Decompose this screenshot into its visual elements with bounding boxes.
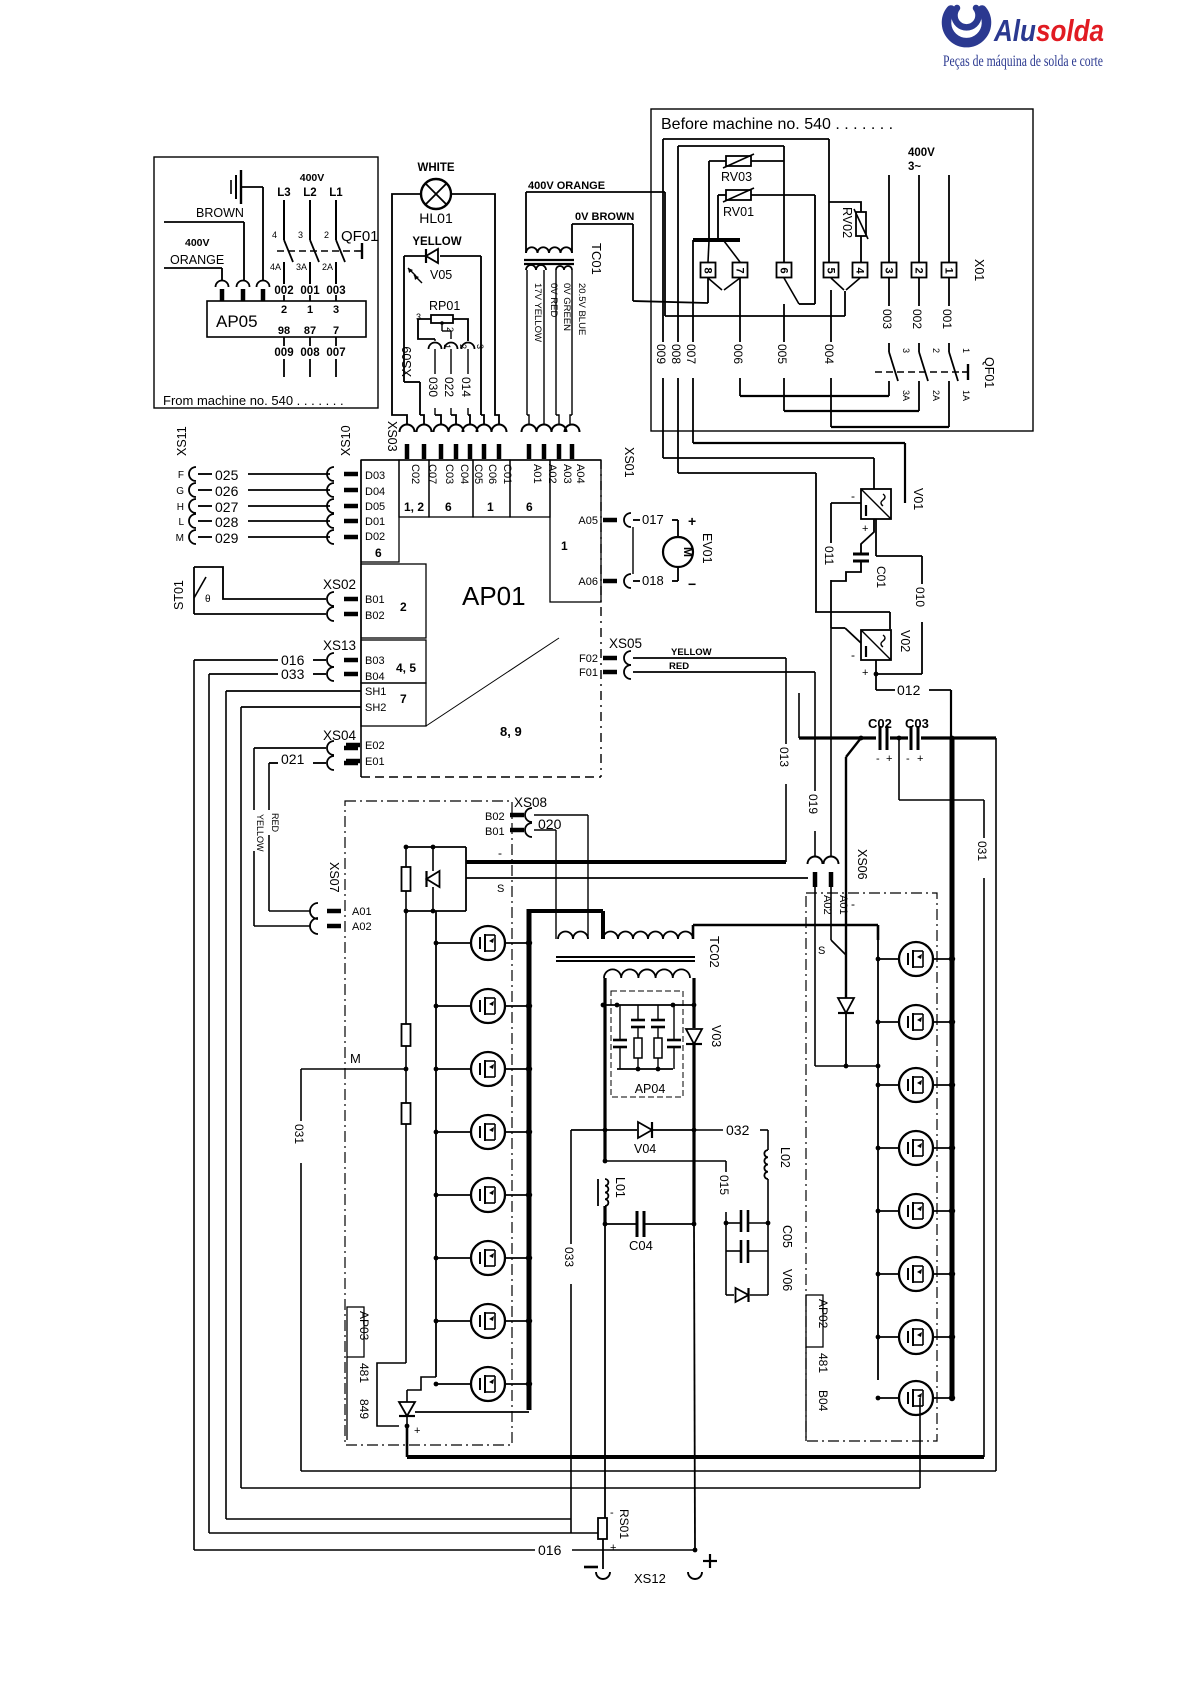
- varistor RV03: [726, 156, 751, 166]
- frame Before machine no. 540: [651, 109, 1033, 431]
- svg-text:AP01: AP01: [462, 581, 526, 611]
- AP01 pin box 1,2: [399, 460, 429, 517]
- svg-text:033: 033: [562, 1247, 576, 1267]
- svg-text:6: 6: [445, 500, 452, 514]
- AP04 capacitor branch 4: [673, 1005, 675, 1040]
- svg-text:XS07: XS07: [327, 862, 341, 893]
- transistor V row 3 left chain: [436, 1068, 471, 1070]
- svg-text:TC02: TC02: [707, 936, 722, 968]
- frame From machine no. 540: [154, 157, 378, 408]
- svg-text:011: 011: [822, 546, 836, 565]
- svg-text:400V: 400V: [300, 172, 325, 184]
- wire 013: [785, 658, 787, 744]
- svg-text:015: 015: [717, 1175, 731, 1195]
- wire 012: [875, 660, 877, 690]
- wire XS06 A01 down: [830, 887, 832, 940]
- svg-text:+: +: [862, 523, 868, 535]
- terminal strip X01: [701, 263, 716, 278]
- svg-text:Alusolda: Alusolda: [993, 13, 1104, 48]
- svg-text:RV03: RV03: [721, 170, 752, 184]
- svg-text:YELLOW: YELLOW: [412, 236, 461, 248]
- svg-text:M: M: [176, 533, 184, 544]
- terminal 6 dogleg: [784, 278, 799, 304]
- right MOSFET chain gate bus: [877, 940, 879, 1380]
- svg-text:BROWN: BROWN: [196, 206, 244, 220]
- svg-text:QF01: QF01: [982, 357, 996, 388]
- wire 031 bottom: [301, 1470, 996, 1472]
- svg-text:-: -: [851, 489, 855, 503]
- svg-text:031: 031: [292, 1124, 306, 1144]
- transistor V row 1 left chain: [436, 942, 471, 944]
- svg-text:0V RED: 0V RED: [548, 283, 559, 317]
- svg-text:481: 481: [357, 1363, 371, 1383]
- svg-text:2: 2: [445, 327, 455, 332]
- wire 007 top: [692, 240, 694, 342]
- svg-text:009: 009: [654, 344, 668, 364]
- wire B02 to TC02 aux: [534, 814, 588, 816]
- svg-text:E02: E02: [365, 740, 385, 752]
- module AP03 dashed box: [345, 801, 512, 1445]
- svg-text:2A: 2A: [322, 262, 333, 272]
- svg-text:1: 1: [487, 500, 494, 514]
- svg-text:Before machine no. 540 . .: Before machine no. 540 . . . . . . .: [661, 116, 893, 133]
- svg-text:B02: B02: [365, 610, 385, 622]
- wire 033 upper: [209, 673, 278, 675]
- svg-text:2: 2: [324, 230, 329, 240]
- svg-text:B02: B02: [485, 811, 505, 823]
- AP05 box: [207, 301, 366, 337]
- wire 033 bottom: [209, 1532, 598, 1534]
- wire yellow to A02: [254, 925, 310, 927]
- snubber resistor block: [406, 846, 466, 848]
- svg-text:400V: 400V: [908, 147, 935, 159]
- TC02 secondary left down: [603, 978, 606, 1161]
- led V05 arrows: [408, 268, 416, 276]
- svg-text:RV02: RV02: [840, 207, 854, 238]
- wire 032: [694, 1129, 723, 1131]
- svg-text:XS12: XS12: [634, 1571, 666, 1586]
- svg-text:XS10: XS10: [339, 425, 353, 456]
- wire 008 top: [678, 145, 784, 147]
- svg-text:1: 1: [561, 539, 568, 553]
- svg-text:B01: B01: [485, 826, 505, 838]
- AP05 input connector bumps: [216, 281, 229, 288]
- svg-text:018: 018: [642, 573, 664, 588]
- svg-text:+: +: [917, 753, 923, 765]
- AP04 top rail: [603, 1004, 694, 1006]
- svg-text:012: 012: [897, 682, 921, 698]
- wire minus output down: [604, 1224, 606, 1518]
- wire 0V brown into box: [633, 301, 708, 303]
- svg-text:SH1: SH1: [365, 686, 386, 698]
- transistor V row 1 right chain: [878, 958, 899, 960]
- svg-text:S: S: [497, 883, 504, 895]
- svg-text:001: 001: [940, 309, 954, 329]
- RP01 right leg: [453, 319, 468, 341]
- svg-text:V04: V04: [634, 1142, 656, 1156]
- svg-text:RED: RED: [669, 661, 689, 672]
- svg-text:A06: A06: [578, 576, 598, 588]
- AP01 pin box 4,5: [361, 640, 426, 683]
- wire A06 018: [624, 574, 631, 588]
- inductor L01: [597, 1179, 599, 1206]
- Alusolda logo icon: [947, 8, 987, 43]
- svg-text:014: 014: [459, 377, 473, 397]
- svg-text:029: 029: [215, 530, 239, 546]
- wire 005: [783, 304, 785, 342]
- resistor in snubber: [402, 867, 411, 891]
- diode V03: [686, 1029, 702, 1044]
- QF01 dashed tie bar: [277, 250, 356, 252]
- svg-text:022: 022: [442, 377, 456, 397]
- wire 400V orange: [526, 191, 665, 193]
- svg-text:V05: V05: [430, 268, 452, 282]
- svg-text:009: 009: [274, 347, 293, 359]
- svg-text:021: 021: [281, 751, 305, 767]
- svg-text:XS09: XS09: [400, 346, 414, 377]
- wire 002: [918, 278, 920, 306]
- TC02 primary right to right chain: [692, 925, 695, 939]
- svg-text:D05: D05: [365, 501, 385, 513]
- svg-text:RP01: RP01: [429, 299, 460, 313]
- breaker QF01 main: [875, 371, 962, 373]
- svg-text:L02: L02: [778, 1147, 792, 1168]
- transistor V row 5 left chain: [436, 1194, 471, 1196]
- svg-text:3: 3: [333, 304, 339, 316]
- motor EV01: [663, 537, 693, 567]
- svg-text:AP02: AP02: [816, 1299, 830, 1329]
- left MOSFET drain bus thick: [527, 909, 532, 1410]
- capacitor C01: [853, 553, 869, 556]
- svg-text:YELLOW: YELLOW: [671, 647, 712, 658]
- svg-text:B04: B04: [816, 1390, 830, 1412]
- svg-text:8: 8: [702, 267, 714, 273]
- svg-text:E01: E01: [365, 756, 385, 768]
- svg-text:XS06: XS06: [855, 849, 869, 880]
- svg-text:SH2: SH2: [365, 702, 386, 714]
- svg-text:8, 9: 8, 9: [500, 724, 522, 739]
- svg-text:849: 849: [357, 1399, 371, 1419]
- AP01 pin box 6a: [429, 460, 473, 517]
- svg-text:AP04: AP04: [635, 1082, 666, 1096]
- shunt RS01: [598, 1518, 607, 1539]
- svg-text:3: 3: [298, 230, 303, 240]
- svg-text:A04: A04: [574, 464, 586, 484]
- svg-text:RS01: RS01: [617, 1509, 631, 1539]
- diode in AP02 gate feed: [838, 998, 854, 1013]
- transistor V row 8 left chain: [436, 1383, 471, 1385]
- wire 016 upper: [194, 659, 278, 661]
- svg-text:016: 016: [538, 1542, 562, 1558]
- AP01 diagonal: [426, 638, 559, 726]
- lamp HL01: [421, 179, 451, 209]
- wire 008 rail to V02: [678, 472, 816, 474]
- right MOSFET drain bus thick: [950, 738, 955, 1398]
- svg-text:B03: B03: [365, 655, 385, 667]
- svg-text:-: -: [876, 753, 880, 765]
- svg-text:003: 003: [880, 309, 894, 329]
- AP04 RC branch 3: [657, 1005, 659, 1020]
- svg-text:AP05: AP05: [216, 312, 258, 331]
- three phase feed wires: [888, 175, 890, 262]
- svg-text:2: 2: [931, 348, 941, 353]
- diode V07: [377, 1363, 406, 1426]
- wire 400V orange into box: [665, 315, 845, 317]
- svg-text:XS04: XS04: [323, 728, 357, 743]
- svg-text:032: 032: [726, 1122, 750, 1138]
- svg-text:481: 481: [816, 1353, 830, 1373]
- svg-text:0V BROWN: 0V BROWN: [575, 211, 634, 223]
- wire ST01 to XS02 B01: [194, 567, 326, 599]
- svg-text:026: 026: [215, 483, 239, 499]
- AP04 RC branch 2: [637, 1005, 639, 1020]
- svg-text:3~: 3~: [908, 161, 921, 173]
- inductor L02: [764, 1150, 768, 1179]
- wire 0V brown: [572, 223, 633, 225]
- wire red to A01: [269, 910, 310, 912]
- wire rail right end down: [995, 738, 997, 1471]
- led V05: [404, 255, 427, 257]
- svg-text:YELLOW: YELLOW: [255, 814, 265, 852]
- svg-text:4: 4: [854, 267, 866, 274]
- svg-text:007: 007: [326, 347, 345, 359]
- svg-text:EV01: EV01: [700, 533, 714, 564]
- svg-text:400V ORANGE: 400V ORANGE: [528, 180, 605, 192]
- svg-text:008: 008: [300, 347, 320, 359]
- transistor V row 2 left chain: [436, 1005, 471, 1007]
- svg-text:XS02: XS02: [323, 577, 356, 592]
- svg-text:0V GREEN: 0V GREEN: [561, 283, 572, 331]
- svg-text:006: 006: [731, 344, 745, 364]
- wire 016 bottom: [194, 1549, 535, 1551]
- wires XS09 to XS03 with labels 030 022 014: [434, 349, 436, 374]
- rectifier V02: [861, 630, 891, 660]
- svg-text:D04: D04: [365, 486, 385, 498]
- svg-text:C07: C07: [426, 464, 438, 484]
- AP01 pin box 1a: [473, 460, 510, 517]
- wire plus output down: [692, 1130, 695, 1224]
- svg-text:1: 1: [961, 348, 971, 353]
- transistor V row 4 right chain: [878, 1147, 899, 1149]
- svg-text:4: 4: [272, 230, 277, 240]
- svg-text:7: 7: [400, 692, 407, 706]
- svg-text:C01: C01: [874, 566, 888, 588]
- wire 009 top: [663, 138, 829, 140]
- svg-text:004: 004: [822, 344, 836, 364]
- svg-text:L1: L1: [329, 187, 343, 199]
- wires below AP05: [283, 295, 285, 301]
- svg-text:3: 3: [901, 348, 911, 353]
- TC01 secondary wires: [526, 270, 528, 415]
- svg-text:5: 5: [825, 267, 837, 273]
- transistor V row 6 right chain: [878, 1273, 899, 1275]
- wire 015: [603, 1159, 608, 1164]
- wire bus top to TC02: [529, 909, 603, 913]
- transistor V row 3 right chain: [878, 1084, 899, 1086]
- diode in snubber: [432, 847, 434, 871]
- svg-text:87: 87: [304, 325, 316, 337]
- wire SH2 bottom: [241, 1487, 920, 1489]
- thick minus rail to XS06: [466, 860, 786, 864]
- S rail to XS06: [466, 877, 808, 879]
- svg-text:6: 6: [778, 267, 790, 273]
- wire ST01 to XS02 B02: [194, 613, 326, 615]
- wire BROWN: [164, 221, 244, 223]
- connector XS01 top: [522, 425, 537, 432]
- svg-text:A02: A02: [352, 921, 372, 933]
- svg-text:1: 1: [307, 304, 313, 316]
- svg-text:XS13: XS13: [323, 638, 356, 653]
- svg-text:RED: RED: [270, 813, 280, 833]
- transistor V row 5 right chain: [878, 1210, 899, 1212]
- svg-text:2: 2: [281, 304, 287, 316]
- wire 011: [831, 502, 861, 504]
- wire C03 tap 031 right: [898, 738, 900, 800]
- svg-text:019: 019: [806, 794, 820, 814]
- wire E02: [254, 747, 326, 749]
- svg-text:XS05: XS05: [609, 636, 642, 651]
- wire 033 top segment: [571, 1129, 605, 1131]
- svg-text:20.5V BLUE: 20.5V BLUE: [576, 283, 587, 335]
- svg-text:AP03: AP03: [357, 1311, 371, 1341]
- svg-text:L: L: [178, 517, 184, 528]
- svg-text:017: 017: [642, 512, 664, 527]
- wire SH1 bottom: [226, 1518, 571, 1520]
- label AP03: [347, 1307, 364, 1357]
- wire 010: [876, 555, 922, 557]
- AP01 pin box D: [361, 460, 399, 562]
- wire 009 drop to terminal 5: [828, 139, 830, 262]
- svg-text:2: 2: [400, 600, 407, 614]
- capacitor C04: [603, 1222, 608, 1227]
- svg-text:ST01: ST01: [172, 580, 186, 610]
- svg-text:400V: 400V: [185, 237, 210, 249]
- svg-text:7: 7: [734, 267, 746, 273]
- connector XS01 spine: [632, 527, 634, 574]
- jumper terminals 8 7: [708, 278, 722, 290]
- svg-text:C04: C04: [629, 1238, 653, 1253]
- wire SH1: [226, 690, 361, 692]
- svg-text:C03: C03: [443, 464, 455, 484]
- svg-text:B01: B01: [365, 594, 385, 606]
- wire 007 rail to V01 right: [693, 442, 905, 444]
- diode V06: [726, 1294, 734, 1296]
- svg-text:031: 031: [975, 841, 989, 861]
- transistor V row 8 right chain: [878, 1397, 899, 1399]
- transistor V row 6 left chain: [436, 1257, 471, 1259]
- breaker QF01 poles: [283, 200, 285, 240]
- wire rail left end up: [798, 693, 800, 738]
- transistor V row 4 left chain: [436, 1131, 471, 1133]
- svg-text:1, 2: 1, 2: [404, 500, 424, 514]
- svg-text:F01: F01: [579, 667, 598, 679]
- svg-text:A01: A01: [531, 464, 543, 484]
- svg-text:6: 6: [375, 546, 382, 560]
- svg-text:A01: A01: [352, 906, 372, 918]
- module AP02 dashed box: [806, 893, 937, 1441]
- svg-text:V06: V06: [780, 1269, 794, 1291]
- svg-text:030: 030: [426, 377, 440, 397]
- svg-text:+: +: [862, 667, 868, 679]
- svg-text:L2: L2: [303, 187, 316, 199]
- svg-text:F: F: [178, 470, 184, 481]
- wire M 031 left: [301, 1068, 406, 1070]
- wire V05 right down: [480, 256, 482, 415]
- svg-text:-: -: [610, 1507, 614, 1519]
- svg-text:L3: L3: [277, 187, 290, 199]
- AP04 capacitor branch 1: [619, 1005, 621, 1040]
- svg-text:4, 5: 4, 5: [396, 661, 416, 675]
- AP01 pin box 2: [361, 564, 426, 638]
- svg-text:D01: D01: [365, 516, 385, 528]
- svg-text:+: +: [610, 1542, 616, 1554]
- wire V05 left down: [403, 256, 405, 382]
- svg-text:007: 007: [684, 344, 698, 364]
- wire V07 to bottom rail: [406, 1426, 409, 1457]
- wire ORANGE: [164, 267, 222, 269]
- svg-text:C05: C05: [780, 1225, 794, 1248]
- transistor V row 7 right chain: [878, 1336, 899, 1338]
- svg-text:H: H: [177, 502, 184, 513]
- svg-text:1: 1: [943, 267, 955, 273]
- wire E01 021: [269, 762, 278, 764]
- AP01 pin box 6b: [510, 460, 550, 517]
- wire 019: [814, 672, 816, 791]
- AP04 bottom rail: [617, 1068, 673, 1070]
- wire 003: [888, 278, 890, 306]
- svg-text:M: M: [350, 1051, 361, 1066]
- svg-text:Peças de máquina de solda e co: Peças de máquina de solda e corte: [943, 53, 1103, 70]
- varistor RV01: [726, 190, 751, 200]
- svg-text:L01: L01: [613, 1177, 627, 1198]
- svg-text:+: +: [688, 513, 696, 529]
- wire SH2: [241, 706, 361, 708]
- svg-text:V01: V01: [911, 488, 925, 510]
- svg-text:S: S: [818, 945, 825, 957]
- svg-text:TC01: TC01: [589, 243, 604, 275]
- svg-text:ORANGE: ORANGE: [170, 253, 224, 267]
- transistor V row 7 left chain: [436, 1320, 471, 1322]
- wire 011 down to XS06: [830, 628, 832, 857]
- varistor RV02: [854, 209, 868, 239]
- jumper terminals 5 4: [831, 278, 844, 290]
- svg-text:θ: θ: [205, 594, 211, 605]
- svg-text:QF01: QF01: [341, 228, 379, 245]
- RP01 wiper: [440, 321, 444, 325]
- svg-text:V02: V02: [898, 630, 912, 652]
- svg-text:A01: A01: [837, 895, 849, 915]
- thick output rail bottom: [407, 1455, 984, 1459]
- transistor V row 2 right chain: [878, 1021, 899, 1023]
- wire lamp left: [392, 194, 421, 424]
- svg-text:028: 028: [215, 514, 239, 530]
- capacitor C05 pair: [724, 1221, 729, 1226]
- svg-text:From machine no. 540 . . .: From machine no. 540 . . . . . . .: [163, 393, 344, 408]
- svg-text:G: G: [176, 486, 184, 497]
- wire 009 rail to V01 top: [663, 457, 874, 459]
- svg-text:002: 002: [910, 309, 924, 329]
- svg-text:XS01: XS01: [622, 447, 636, 478]
- wire A05 017: [624, 513, 631, 527]
- svg-text:X01: X01: [972, 259, 986, 281]
- svg-text:-: -: [851, 648, 855, 662]
- ground: [240, 170, 242, 204]
- svg-text:WHITE: WHITE: [417, 162, 454, 174]
- svg-text:008: 008: [669, 344, 683, 364]
- svg-text:3: 3: [475, 344, 485, 349]
- svg-text:1A: 1A: [961, 390, 971, 401]
- label AP02: [806, 1295, 823, 1347]
